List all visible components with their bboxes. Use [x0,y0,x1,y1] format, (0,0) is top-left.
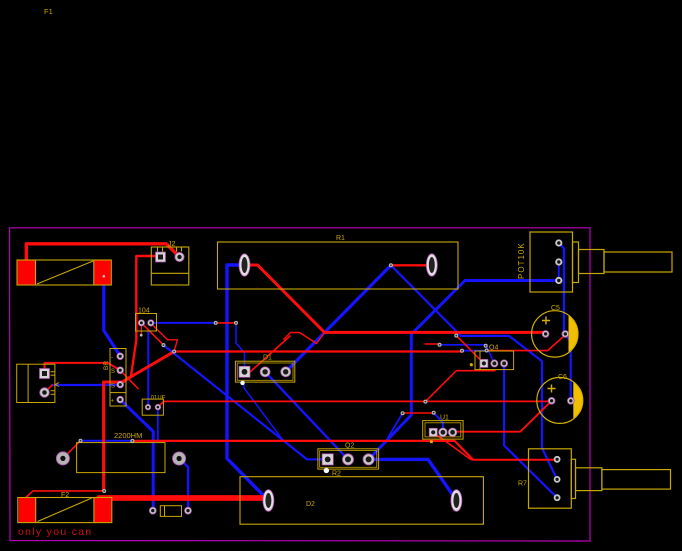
wire C5 right pad to via(487,350) [487,335,566,351]
wire zigzag near (290,336) [284,333,325,344]
via [79,263,489,493]
svg-text:2200HM: 2200HM [114,431,142,440]
wire D1 crossing diagonal [250,336,290,372]
transistor Q2 [318,443,379,478]
svg-text:S: S [111,384,115,390]
wire J1 round pad to BR pad3 [52,384,120,386]
svg-text:C6: C6 [558,374,567,381]
wire 104 right pad east to via [151,322,216,324]
svg-text:Q2: Q2 [345,443,354,450]
svg-text:F2: F2 [61,492,69,499]
resistor 220OHM [56,431,185,473]
wire POT10K pad1 to C5 right pad [559,243,564,334]
diode D1 [235,355,294,386]
wire Q4 right pad to R7 pad3 [504,363,557,497]
svg-text:R1: R1 [336,235,345,242]
wire thick vertical to viaB [104,352,175,492]
wire R1 left pad to C5 left pad [246,265,546,332]
capacitor C6 [537,374,583,423]
svg-text:only you can: only you can [18,526,93,538]
wire POT10K pad2 to pad3 [558,262,560,281]
connector J2 [151,241,189,285]
wire 2200HM right pad to small resistor right pad [179,459,188,511]
wire F1 left pad to J2 round pad [26,244,179,262]
wire stub from via(403,413) [388,413,403,437]
wire via(462,351) to via(487,351) [462,350,487,352]
wire via(440,345) to Q4 middle pad [440,345,495,364]
wire 2200HM left pad to via [63,441,81,459]
svg-text:Q4: Q4 [489,345,498,352]
svg-text:S: S [111,369,115,375]
wire C5 right pad to C6 right pad [565,335,570,401]
wire via(425,402) to under Q4 [425,371,495,402]
potentiometer POT10K [517,232,672,292]
resistor small (bottom middle) [149,506,191,517]
wire R1 left pad down to D2 left pad [227,265,268,500]
wire junction to R7 pad1 [473,459,555,461]
wire via(216,323) to via(236,323) [216,322,236,324]
svg-text:D2: D2 [306,501,315,508]
wire BR pad4 to small resistor left pad [120,400,153,511]
wire via(391,265) to D1 right pad [286,265,391,372]
wire via(80,440) to via(132,440) [81,440,133,442]
wire J2 square pad to BR pad3 [121,256,161,385]
wire 104 left pad to via below [140,323,142,335]
wire via(403,413) to via(434,413) [403,412,434,414]
svg-text:J2: J2 [168,241,176,248]
wire 104 area down to .01UF left pad [147,331,149,407]
wire viaB east to via(462,351) [174,350,462,352]
fuse F2 [18,492,112,523]
regulator U1 [423,415,463,444]
wire D1 middle pad to Q2 middle pad [265,372,348,460]
wire via(236,323) to D1 square pad [236,323,245,372]
wire J1 square pad to BR pad2 [45,363,121,374]
wire viaA(163.5,345) to Q2 square pad [164,345,328,459]
svg-text:+: + [111,399,115,405]
wire 104 right pad zigzag to viaB [151,323,178,351]
diode D2 [240,477,483,525]
board outline [10,228,591,541]
bridge rectifier BR [103,349,126,407]
wire 2200HM via east to R7 pad1 [132,441,473,460]
capacitor 104 [136,308,157,332]
wire C6 left pad to U1 right pad [453,401,552,432]
wire J1 round pad stub [45,385,53,393]
svg-text:D1: D1 [263,355,272,362]
svg-text:-: - [111,355,113,361]
transistor Q4 [470,345,514,370]
wire F1 right pad to BR pad1 [104,283,120,356]
wire via(456,336) to Q4 square pad [456,336,484,364]
wire via(434,413) to U1 middle pad [434,413,443,433]
capacitor C5 [532,305,578,357]
svg-text:F1: F1 [44,7,53,16]
wire via(391,265) to R7 pad2 [391,265,557,479]
svg-text:104: 104 [138,308,150,315]
wire short red y344 [425,343,440,345]
wire Q2 right pad to D2 right pad [369,459,457,500]
capacitor .01UF [142,396,165,416]
potentiometer R7 [518,449,671,508]
wire F2 left pad to via [26,491,104,498]
svg-text:BR: BR [103,361,110,370]
fuse F1 (top left footprint) [17,260,111,285]
wire U1 square pad diagonal to junction [433,432,471,459]
wire POT10K pad3 to Q2 right pad [369,281,559,460]
svg-text:R7: R7 [518,481,527,488]
wire .01UF right pad to C6 left pad [158,401,549,407]
svg-text:U1: U1 [440,415,449,422]
wire BR pad2 stub [120,370,138,388]
wire R1 right pad to via [391,264,427,266]
svg-text:POT10K: POT10K [517,242,526,279]
wire .01UF right pad down to red line [157,407,159,441]
svg-text:C5: C5 [551,305,560,312]
wire 104 left pad to viaA [141,323,163,345]
connector J1 [17,364,59,402]
svg-text:.01UF: .01UF [149,396,166,402]
wire D1 square pad branch down [244,381,283,440]
resistor R1 [218,235,459,289]
wire F2 right pad to D2 left pad (power band) [99,495,263,501]
